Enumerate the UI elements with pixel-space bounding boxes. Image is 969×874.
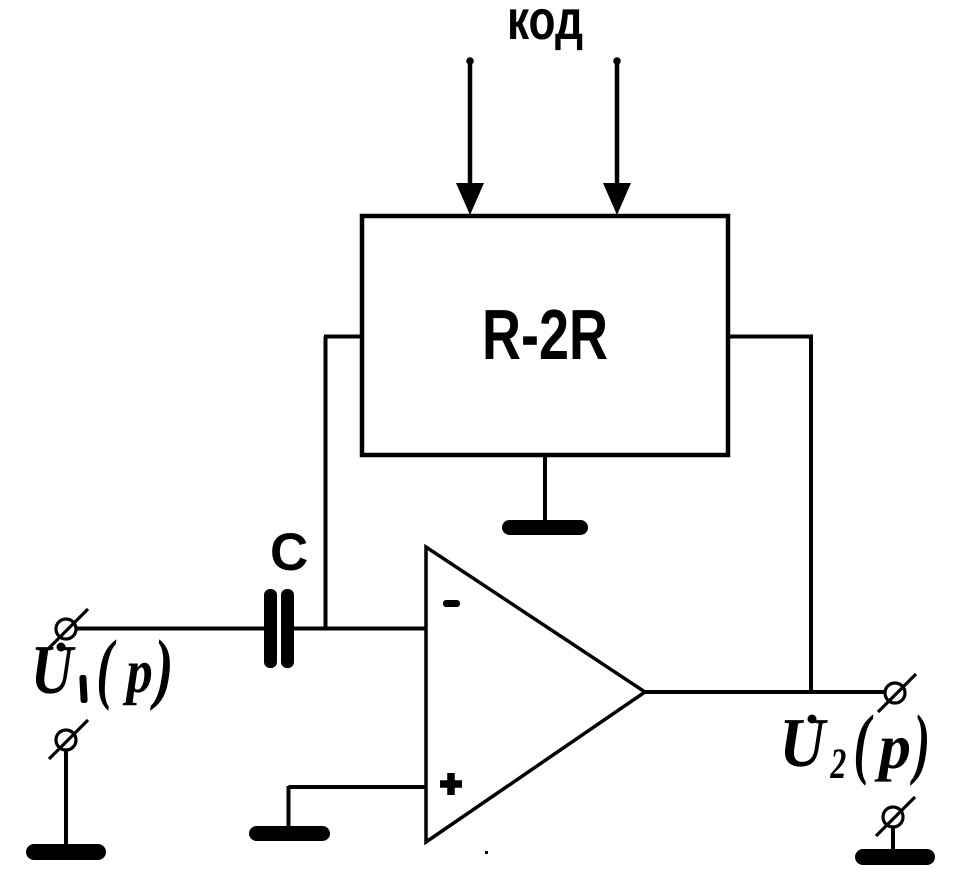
svg-text:код: код <box>507 0 583 51</box>
svg-text:R-2R: R-2R <box>482 296 608 375</box>
svg-text:C: C <box>270 523 308 582</box>
svg-text:p: p <box>122 638 153 706</box>
svg-text:): ) <box>910 700 930 787</box>
svg-text:): ) <box>150 625 174 712</box>
svg-text:p: p <box>874 711 911 782</box>
svg-text:U: U <box>31 632 76 709</box>
svg-text:U: U <box>779 705 828 782</box>
